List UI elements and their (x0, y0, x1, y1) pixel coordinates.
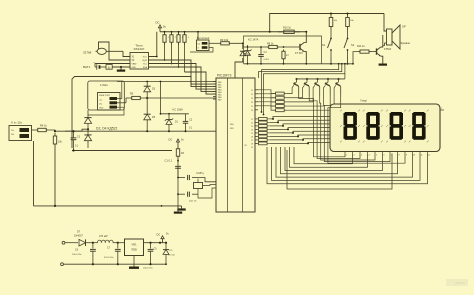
wire VCC up (149, 32, 157, 57)
wire emitter rail (297, 78, 345, 80)
svg-text:BAT1: BAT1 (83, 65, 91, 69)
svg-text:R4 1k: R4 1k (40, 124, 47, 128)
IC U1 PIC16F73 box (216, 78, 255, 212)
wire psu gnd rail (64, 263, 167, 265)
display bottom pin 10 (412, 152, 414, 154)
junction seg 0 (272, 118, 274, 120)
display corner pin (440, 109, 444, 111)
switch S1 (330, 30, 332, 38)
wire mclr to mcu (177, 159, 179, 178)
svg-text:12: 12 (428, 155, 430, 157)
wire battery to gnd (112, 66, 130, 68)
wire base 3 (258, 102, 276, 106)
U1 right pin l5 (255, 135, 258, 137)
diode D7 (79, 239, 86, 246)
wire r8 right (279, 46, 298, 48)
resistor base R21 (258, 93, 262, 95)
display bottom pin 12 (427, 152, 429, 154)
wire SDA bus (149, 67, 217, 92)
U1 right pin u1 (255, 93, 258, 95)
zener D1 KC156A (166, 120, 172, 125)
wire term vcc (197, 32, 199, 40)
wire term dq (209, 42, 220, 44)
U1 right pin u2 (255, 97, 258, 99)
resistor pullup R11 (164, 32, 166, 35)
transistor Q5 digit (317, 79, 319, 82)
U1 right pin l1 (255, 121, 258, 123)
junction mclr (177, 166, 179, 168)
junction seg 1 (277, 121, 279, 123)
resistor R4 (37, 129, 38, 131)
svg-text:DQ: DQ (198, 44, 201, 46)
svg-text:DQ: DQ (99, 104, 102, 106)
svg-text:10k: 10k (58, 141, 63, 144)
display digit 4 (413, 112, 424, 116)
ground G2 (181, 206, 183, 209)
junction seg 6 (302, 139, 304, 141)
svg-text:3v: 3v (108, 65, 111, 69)
svg-text:1-Wire: 1-Wire (100, 83, 108, 87)
capacitor C4 (258, 54, 264, 56)
svg-text:1: 1 (175, 37, 176, 39)
svg-text:KT 315: KT 315 (295, 52, 303, 55)
resistor pullup R12 (171, 32, 173, 35)
svg-text:R10 1k: R10 1k (283, 27, 292, 30)
transistor Q6 digit (327, 79, 329, 82)
wire q1 base (371, 51, 377, 53)
wire seg 0 (270, 117, 325, 119)
wire busL2 (259, 64, 342, 78)
svg-text:RB0: RB0 (230, 124, 234, 126)
display digit 1 (345, 112, 356, 116)
svg-text:G: G (198, 48, 200, 50)
wire nest 7 (287, 150, 392, 189)
junction riser (269, 31, 271, 33)
display ticks 4 (409, 110, 411, 112)
wire X1 (123, 51, 130, 56)
svg-text:2: 2 (353, 155, 354, 157)
svg-text:24: 24 (251, 102, 253, 104)
ground G1 (120, 67, 122, 70)
wire j1 out (32, 129, 37, 131)
U1 right pin l4 (255, 132, 258, 134)
wire SCL bus (149, 64, 217, 90)
U1 left pin 5 (213, 88, 216, 90)
svg-text:+5v: +5v (99, 100, 102, 102)
junction rail 1 (171, 31, 173, 33)
wire zq1 right (196, 178, 216, 182)
svg-text:SDA: SDA (143, 66, 148, 69)
display ticks 1 (340, 110, 342, 112)
wire aux bus (185, 72, 217, 94)
junction clamp top (146, 81, 148, 83)
U1 left pin 8 (213, 96, 216, 98)
junction em 0 (296, 78, 298, 80)
resistor seg R31 (259, 121, 268, 124)
svg-text:D5: D5 (152, 116, 156, 119)
wire gnd rail206 (34, 205, 182, 207)
wire vr1 gnd (133, 256, 135, 267)
junction rail 2 (178, 31, 180, 33)
svg-text:GND: GND (99, 108, 104, 110)
wire r5 right (142, 97, 217, 99)
U1 right pin l2 (255, 125, 258, 127)
diode D4 (84, 135, 91, 141)
svg-text:5: 5 (376, 155, 377, 157)
svg-text:DC: DC (156, 21, 160, 25)
display left pin 1 (325, 119, 331, 121)
U1 right pin l7 (255, 142, 258, 144)
display left pin 4 (325, 130, 331, 132)
power DC 5v top (159, 28, 161, 32)
junction rail64 (247, 63, 249, 65)
svg-text:S2: S2 (351, 43, 355, 47)
svg-text:3: 3 (361, 155, 362, 157)
resistor seg R30 (259, 118, 268, 121)
display left pin 2 (325, 123, 331, 125)
svg-text:22: 22 (251, 94, 253, 96)
display digit 2 (368, 112, 379, 116)
U1 right pin u0 (255, 89, 258, 91)
svg-text:R14 1k: R14 1k (357, 45, 365, 48)
junction rail 0 (164, 31, 166, 33)
wire port dq (117, 102, 126, 104)
terminal in+ (62, 241, 65, 244)
display digit 3 (391, 112, 402, 116)
wire zq1 route (197, 179, 199, 183)
wire seg 5 (270, 135, 325, 136)
resistor seg R33 (259, 128, 268, 131)
resistor base R22 (258, 97, 262, 99)
capacitor C7 (117, 243, 119, 249)
svg-text:R9 10k: R9 10k (220, 38, 229, 42)
wire nest 5 (272, 147, 421, 180)
svg-text:1: 1 (188, 37, 189, 39)
junction seg 7 (307, 142, 309, 144)
svg-text:SCL: SCL (143, 64, 148, 66)
wire coll stair 4 (328, 95, 405, 163)
svg-text:470.0 16v: 470.0 16v (104, 257, 115, 259)
svg-text:WIRE PORT: WIRE PORT (99, 95, 111, 97)
power 5v mclr (177, 142, 179, 146)
U1 left pin 6 (213, 91, 216, 93)
display bottom pin 11 (419, 152, 421, 154)
junction rail 3 (184, 31, 186, 33)
svg-text:1N4007: 1N4007 (74, 235, 83, 238)
connector J3 wire port (98, 93, 121, 111)
ground G4 psu (129, 267, 139, 269)
wire c1 plate2 (177, 168, 179, 211)
switch S2 (347, 30, 349, 38)
ground q1 (382, 61, 384, 64)
svg-text:100.0 10v: 100.0 10v (143, 268, 154, 270)
svg-text:D2, D4 КД522: D2, D4 КД522 (96, 127, 118, 131)
crystal ZQ2 32768 (97, 48, 106, 54)
wire zq bottom (197, 193, 199, 195)
capacitor Cq1 (187, 175, 189, 180)
svg-text:R7: R7 (286, 55, 290, 57)
wire seg 7 (270, 142, 325, 143)
display left pin 5 (325, 134, 331, 136)
wire d2-d4 (87, 123, 89, 135)
diode D5 clamp down (144, 114, 151, 120)
svg-text:18: 18 (251, 144, 253, 146)
wire 5v top clamp (117, 81, 216, 83)
wire busL1 (262, 64, 339, 112)
wire base 1 (258, 94, 276, 98)
svg-text:5v: 5v (181, 138, 184, 142)
svg-text:C2: C2 (189, 119, 193, 122)
U1 right pin u5 (255, 109, 258, 111)
capacitor C2 (183, 120, 188, 122)
wire crystal loop (99, 42, 131, 60)
regulator VR1 7805 box (125, 239, 144, 256)
wire seg 4 (270, 131, 325, 133)
svg-text:R3: R3 (181, 153, 185, 155)
resistor base R23 (258, 101, 262, 103)
svg-text:12v: 12v (11, 130, 14, 132)
display bottom pin 5 (374, 152, 376, 154)
svg-text:a: a (441, 108, 443, 110)
wire base L 4 (287, 85, 336, 110)
transistor Q1 KT503 (376, 48, 378, 54)
resistor seg R34 (259, 132, 268, 135)
diode D8 (240, 51, 246, 55)
U1 right pin l0 (255, 118, 258, 120)
svg-text:0.1: 0.1 (75, 146, 79, 148)
wire nest 0 (294, 147, 353, 164)
display left pin 3 (325, 127, 331, 129)
resistor seg R32 (259, 125, 268, 128)
resistor seg R37 (259, 142, 268, 145)
junction rail206 (54, 205, 56, 207)
display bottom pin 9 (404, 152, 406, 154)
display bottom pin 4 (367, 152, 369, 154)
svg-text:10k: 10k (334, 20, 338, 22)
junction c3 (72, 130, 74, 132)
svg-text:GND: GND (132, 67, 137, 69)
svg-text:KC 156A: KC 156A (173, 108, 184, 112)
svg-text:X1: X1 (132, 57, 136, 59)
resistor R14 base (358, 51, 360, 53)
svg-text:0.1: 0.1 (189, 128, 193, 130)
wire coll stair 1 (309, 95, 360, 158)
svg-text:D7: D7 (77, 231, 81, 234)
svg-text:X2: X2 (132, 60, 136, 62)
svg-text:5v: 5v (163, 25, 167, 29)
wire port 5v (117, 82, 122, 99)
junction em 1 (306, 78, 308, 80)
wire nest 1 (290, 147, 368, 167)
svg-text:21: 21 (251, 90, 253, 92)
resistor pullup R13 (178, 32, 180, 35)
resistor seg R35 (259, 135, 268, 138)
wire j1 gnd down (33, 141, 35, 206)
junction em 3 (327, 78, 329, 80)
wire nest 3 (281, 147, 398, 174)
wire rail13 riser (270, 14, 384, 32)
svg-text:KT503: KT503 (384, 48, 392, 51)
wire coll stair 0 (299, 95, 345, 157)
connector J1 12v (9, 126, 32, 141)
junction r5 d (146, 97, 148, 99)
capacitor C9 (150, 243, 152, 249)
svg-text:12: 12 (251, 123, 253, 125)
capacitor C1 (175, 165, 181, 167)
resistor R13 s2 (347, 14, 349, 18)
resistor R5 (131, 97, 132, 99)
svg-text:R5: R5 (130, 93, 134, 96)
junction rail131 (87, 130, 89, 132)
wire r4 node (48, 130, 56, 131)
junction psu2 (117, 242, 119, 244)
battery BAT1 (94, 64, 96, 68)
svg-text:C3: C3 (77, 136, 81, 139)
inductor L1 (93, 242, 98, 244)
svg-text:VCC: VCC (143, 57, 148, 59)
svg-text:DS1307: DS1307 (134, 47, 145, 51)
wire q2 base (298, 46, 300, 48)
junction vcc rail (156, 56, 158, 58)
speaker SP (384, 14, 387, 32)
svg-text:15: 15 (251, 133, 253, 135)
display DISP1 box (330, 104, 440, 152)
svg-text:DC: DC (169, 138, 173, 142)
diode D9 (163, 250, 169, 255)
ground G3 (177, 209, 179, 212)
junction d8 (242, 42, 244, 44)
wire term gnd (190, 48, 213, 53)
wire 5v rail64 (244, 63, 354, 65)
wire q1 emitter (381, 56, 383, 61)
U1 left pin 2 (213, 81, 216, 83)
resistor R7 vert (283, 50, 285, 52)
display ticks 3 (386, 110, 388, 112)
svg-text:D3: D3 (152, 88, 156, 91)
svg-text:10: 10 (413, 155, 415, 157)
wire q1 collector (381, 35, 383, 47)
svg-text:SP: SP (402, 25, 406, 29)
U1 right pin u3 (255, 101, 258, 103)
section frame oscillator (244, 36, 322, 64)
svg-text:C1 0.1: C1 0.1 (165, 159, 173, 163)
transistor Q2 KT315 (299, 44, 301, 50)
svg-text:PIC16F73: PIC16F73 (217, 73, 232, 77)
wire d2 junction to 12v (65, 129, 88, 131)
wire 5v rail y32 (160, 31, 306, 33)
svg-text:7segl: 7segl (360, 99, 367, 103)
wire loop to MCU (72, 77, 216, 149)
junction psu3 (149, 242, 151, 244)
junction seg 5 (297, 135, 299, 137)
U1 left pin 4 (213, 86, 216, 88)
wire r14 left (353, 52, 358, 64)
U1 right pin l3 (255, 128, 258, 130)
display bottom pin 7 (389, 152, 391, 154)
svg-text:1: 1 (168, 37, 169, 39)
wire bottom rail150 (72, 150, 172, 152)
junction osc rail2 (305, 31, 307, 33)
svg-text:9: 9 (406, 155, 407, 157)
wire base 2 (258, 98, 276, 102)
wire base L 3 (287, 85, 325, 106)
svg-text:V in 12v: V in 12v (11, 121, 23, 125)
svg-text:4: 4 (368, 155, 369, 157)
svg-text:11: 11 (421, 155, 423, 157)
zener D6 KC147A (245, 51, 251, 56)
junction em 2 (317, 78, 319, 80)
svg-text:6: 6 (383, 155, 384, 157)
svg-text:25: 25 (251, 106, 253, 108)
capacitor Cq2 (187, 192, 189, 197)
U1 left pin 7 (213, 93, 216, 95)
svg-text:KC 147A: KC 147A (248, 38, 259, 42)
U1 left pin 9 (213, 98, 216, 100)
resistor base R24 (258, 105, 262, 107)
svg-text:Speaker: Speaker (401, 41, 411, 45)
svg-text:11: 11 (251, 119, 253, 121)
wire coll stair 3 (324, 95, 390, 162)
svg-text:SQW: SQW (142, 60, 147, 62)
resistor R8 (267, 46, 269, 48)
svg-text:32768: 32768 (83, 51, 92, 55)
svg-text:500: 500 (11, 134, 14, 136)
junction psu1 (92, 242, 94, 244)
wire q2 emitter (304, 52, 306, 64)
svg-text:D9: D9 (170, 250, 174, 252)
svg-text:100.0 25v: 100.0 25v (72, 254, 83, 256)
resistor R6 vert (54, 133, 56, 136)
svg-text:13: 13 (251, 126, 253, 128)
wire mclr (177, 159, 179, 161)
svg-text:D1: D1 (175, 122, 179, 124)
wire busL3 (264, 64, 345, 115)
resistor R3 mclr (177, 146, 179, 149)
svg-text:KC 156: KC 156 (168, 255, 176, 257)
svg-text:4 МГц: 4 МГц (196, 171, 204, 175)
connector J2 termometr (197, 40, 210, 51)
svg-text:1: 1 (346, 155, 347, 157)
wire SQW bus (149, 60, 217, 84)
wire r6 down (54, 147, 56, 206)
wire port gnd (88, 107, 124, 115)
svg-text:VR1: VR1 (131, 243, 137, 247)
wire psu in (65, 242, 78, 244)
display left pin 6 (325, 138, 331, 140)
svg-text:C4: C4 (264, 51, 268, 54)
wire base L 1 (287, 85, 304, 97)
resistor R12 s1 (330, 14, 332, 18)
wire R9 to D8 (231, 43, 243, 49)
junction d9 (165, 242, 167, 244)
diode D2 (84, 118, 91, 124)
svg-text:C6: C6 (75, 249, 79, 252)
wire s1 down (330, 57, 332, 64)
terminal in- (61, 263, 64, 266)
display bottom pin 1 (344, 152, 346, 154)
IC U2 DS1307 box (130, 53, 149, 70)
display bottom pin 6 (382, 152, 384, 154)
junction seg 4 (292, 132, 294, 134)
svg-text:1: 1 (182, 37, 183, 39)
svg-text:VBAT: VBAT (132, 63, 138, 66)
resistor base R20 (258, 89, 262, 91)
transistor Q3 digit (296, 79, 298, 82)
svg-text:C9: C9 (154, 249, 158, 251)
wire seg 3 (270, 128, 325, 130)
svg-text:S1: S1 (322, 43, 326, 47)
svg-text:14: 14 (251, 130, 253, 132)
